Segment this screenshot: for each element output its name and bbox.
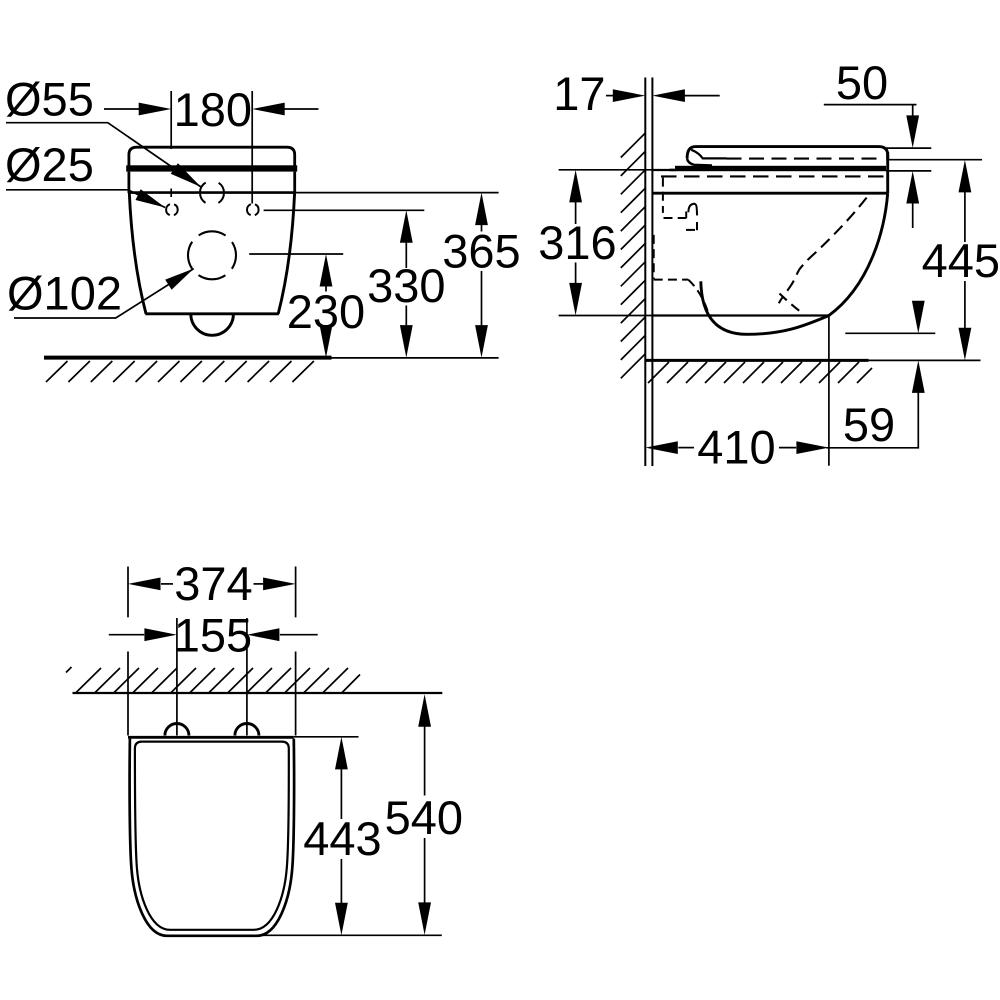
- seat inner outline plan: [135, 742, 289, 930]
- seat box right side: [293, 172, 296, 193]
- svg-text:155: 155: [174, 609, 252, 662]
- wall line left: [644, 78, 646, 467]
- svg-text:59: 59: [843, 398, 895, 451]
- 445 top reference line: [888, 159, 982, 161]
- dim 410 extension line: [828, 316, 830, 466]
- 443 top reference line: [294, 736, 359, 738]
- bowl body right edge: [278, 193, 294, 314]
- bowl bottom line: [652, 314, 829, 316]
- dim 410 left arrow: [645, 441, 678, 454]
- svg-text:50: 50: [836, 56, 888, 109]
- dim 50 down arrow: [906, 115, 919, 147]
- 330 reference line: [264, 209, 425, 211]
- svg-text:Ø25: Ø25: [5, 138, 94, 191]
- ground hatching: [46, 361, 314, 382]
- dim 59 top reference line: [845, 332, 935, 334]
- bowl body left edge: [129, 193, 146, 314]
- svg-text:180: 180: [174, 83, 252, 136]
- wall line plan: [73, 692, 443, 694]
- dim 374 right arrow: [254, 583, 264, 585]
- wall hatching plan: [66, 667, 360, 693]
- seat outer outline plan: [130, 739, 295, 936]
- svg-text:330: 330: [367, 259, 445, 312]
- dim 374 extension left: [127, 567, 129, 736]
- dim 155 extension right: [246, 618, 248, 736]
- dim 330: [400, 210, 413, 243]
- rim top line: [652, 169, 676, 171]
- seat gap thick band: [126, 165, 297, 171]
- hinge right: [235, 724, 259, 736]
- hole D25 right dashed circle: [247, 204, 259, 216]
- dim 155 extension left: [176, 618, 178, 736]
- 316 top reference line: [559, 169, 653, 171]
- dim 365: [475, 193, 488, 226]
- svg-text:17: 17: [553, 67, 605, 120]
- dim 17 left arrow: [606, 95, 613, 97]
- svg-text:443: 443: [303, 812, 381, 865]
- rim hidden dashed line: [661, 175, 884, 177]
- dim 374 extension right: [295, 567, 297, 736]
- trap outlet bump: [191, 314, 234, 335]
- cistern lid outline: [129, 147, 295, 166]
- seat lid bottom left edge: [687, 158, 712, 165]
- svg-text:445: 445: [922, 234, 1000, 287]
- hole D55 dashed circle: [200, 181, 224, 205]
- svg-text:Ø102: Ø102: [7, 267, 122, 320]
- bowl body bottom edge: [145, 312, 279, 315]
- dim 50 up arrow: [906, 171, 919, 204]
- hole D102 dashed circle: [188, 231, 236, 279]
- ground line thin: [332, 357, 499, 359]
- wall line right: [651, 78, 653, 467]
- dim 17 right arrow: [652, 89, 685, 102]
- rim right edge: [886, 152, 889, 193]
- dim 540: [418, 694, 431, 727]
- bowl inner dashed curve: [779, 198, 867, 304]
- rim bottom line: [652, 192, 887, 195]
- seat top edge plan: [128, 736, 294, 739]
- ground hatching side: [648, 362, 872, 383]
- bowl basin curve: [701, 281, 829, 334]
- flush valve hook: [688, 204, 697, 216]
- dim 180 right arrow: [282, 108, 319, 110]
- leader D25: [6, 190, 165, 208]
- ground line side thin: [869, 359, 981, 361]
- flush channel dashed lines: [654, 178, 709, 316]
- dim 443: [335, 737, 348, 770]
- seat lid hidden bottom dashed: [727, 158, 885, 160]
- 50 bottom reference line: [886, 170, 931, 172]
- svg-text:410: 410: [697, 421, 775, 474]
- svg-text:Ø55: Ø55: [5, 73, 94, 126]
- seat bottom edge line: [128, 191, 295, 194]
- svg-text:365: 365: [442, 225, 520, 278]
- dim 445: [959, 160, 972, 193]
- dim 180 extension line left: [170, 91, 172, 197]
- dim 59 up arrow: [912, 360, 925, 393]
- dim 374 left arrow: [128, 578, 161, 591]
- svg-text:374: 374: [174, 557, 252, 610]
- dim 155 right arrow: [247, 628, 280, 641]
- bottom reference line: [250, 934, 442, 936]
- seat lid inner hook: [691, 150, 726, 159]
- wall hatching: [621, 133, 646, 378]
- seat lid profile outline: [687, 147, 888, 161]
- dim 410 right arrow: [779, 447, 796, 449]
- ground line side thick: [646, 359, 869, 362]
- hole D25 left dashed circle: [166, 204, 178, 216]
- seat gap thick band side: [675, 166, 886, 171]
- dim 180 left arrow: [104, 108, 141, 110]
- seat box left side: [127, 172, 130, 193]
- ground line thick: [44, 356, 332, 360]
- hinge left: [165, 724, 189, 736]
- dim 50 tail line: [824, 105, 917, 119]
- dim 59 down arrow: [912, 301, 925, 334]
- svg-text:540: 540: [385, 791, 463, 844]
- svg-text:316: 316: [538, 216, 616, 269]
- bowl outer curve: [829, 193, 888, 315]
- 50 top reference line: [885, 147, 932, 149]
- 230 reference line: [249, 253, 343, 255]
- dim 230: [320, 254, 333, 287]
- 365 reference line: [295, 192, 498, 194]
- 316 bottom reference line: [559, 315, 653, 317]
- leader D55: [6, 123, 201, 187]
- dim 316: [569, 170, 582, 203]
- dim 155 left arrow: [109, 634, 144, 636]
- trap right dashed curve: [780, 294, 802, 313]
- leader D102: [14, 269, 194, 318]
- dim 180 extension line right: [251, 91, 253, 204]
